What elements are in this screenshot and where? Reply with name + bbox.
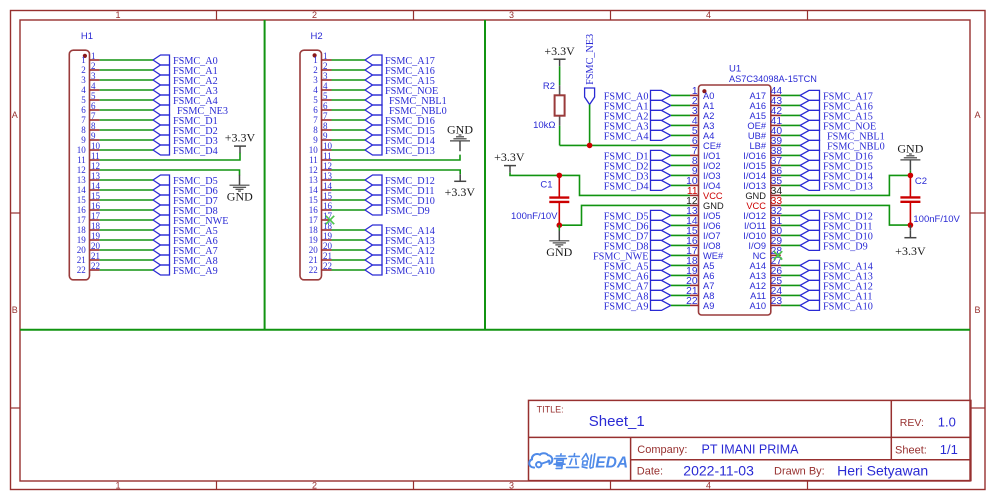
svg-text:14: 14 xyxy=(91,181,101,191)
U1 pin 38 (I/O16) xyxy=(743,146,782,161)
net label FSMC_A17 (U1 pin 44) xyxy=(800,90,873,102)
wire H1 pin 18 xyxy=(100,229,153,231)
svg-text:4: 4 xyxy=(706,481,711,491)
wire H2 pin 21 xyxy=(332,259,366,261)
net label FSMC_A4 (U1 pin 5) xyxy=(604,130,671,142)
H1 pin 5 xyxy=(81,91,99,105)
svg-text:20: 20 xyxy=(91,241,101,251)
svg-text:FSMC_A9: FSMC_A9 xyxy=(173,266,218,277)
svg-text:17: 17 xyxy=(77,215,87,225)
svg-text:A1: A1 xyxy=(703,101,714,111)
svg-text:1: 1 xyxy=(313,55,318,65)
wire H1 pin 5 xyxy=(100,99,153,101)
svg-text:4: 4 xyxy=(313,85,318,95)
net label FSMC_NWE (U1 pin 17) xyxy=(593,250,671,262)
svg-text:22: 22 xyxy=(91,261,100,271)
net label FSMC_D7 (U1 pin 15) xyxy=(604,230,671,242)
H1 pin 22 xyxy=(77,261,100,275)
svg-text:GND: GND xyxy=(227,190,253,204)
net label FSMC_D3 (H1 pin 9) xyxy=(153,135,218,147)
net label FSMC_NWE (H1 pin 17) xyxy=(153,215,228,227)
wire U1 pin 14 xyxy=(671,224,690,226)
svg-text:VCC: VCC xyxy=(703,191,723,201)
svg-text:13: 13 xyxy=(309,175,319,185)
svg-text:14: 14 xyxy=(309,185,319,195)
H2 pin 15 xyxy=(309,191,333,205)
svg-text:+3.3V: +3.3V xyxy=(895,244,926,258)
svg-text:FSMC_NE3: FSMC_NE3 xyxy=(585,34,596,85)
wire U1 pin 4 xyxy=(671,124,690,126)
svg-text:2: 2 xyxy=(312,10,317,20)
svg-text:A12: A12 xyxy=(749,281,766,291)
wire U1 pin 25 xyxy=(781,284,800,286)
svg-text:VCC: VCC xyxy=(746,201,766,211)
U1 pin 33 (VCC) xyxy=(746,196,782,211)
svg-text:12: 12 xyxy=(77,165,86,175)
U1 pin 27 (A14) xyxy=(749,256,782,271)
net label FSMC_A12 (H2 pin 20) xyxy=(365,245,435,257)
svg-text:A9: A9 xyxy=(703,301,714,311)
svg-text:A6: A6 xyxy=(703,271,714,281)
title block grid xyxy=(529,400,971,480)
svg-text:10: 10 xyxy=(309,145,319,155)
wire U1 pin 8 xyxy=(671,164,690,166)
H2 pin 20 xyxy=(309,241,333,255)
wire H1 pin 8 xyxy=(100,129,153,131)
svg-text:Heri Setyawan: Heri Setyawan xyxy=(837,462,928,478)
svg-text:2: 2 xyxy=(312,481,317,491)
U1 pin 35 (I/O13) xyxy=(743,176,782,191)
U1 pin 34 (GND) xyxy=(745,186,782,201)
wire U1 pin 36 xyxy=(781,174,800,176)
net label FSMC_A2 (H1 pin 3) xyxy=(153,75,218,87)
wire H1 pin 12 to GND xyxy=(100,170,240,175)
net label FSMC_D3 (U1 pin 9) xyxy=(604,170,671,182)
wire U1 pin 29 xyxy=(781,244,800,246)
H2 pin 21 xyxy=(309,251,332,265)
net label FSMC_A0 (U1 pin 1) xyxy=(604,90,671,102)
svg-text:I/O3: I/O3 xyxy=(703,171,721,181)
svg-text:FSMC_D4: FSMC_D4 xyxy=(173,146,218,157)
wire H1 pin 17 xyxy=(100,219,153,221)
power +3.3V (R2 top) xyxy=(544,44,575,66)
H1 pin 21 xyxy=(77,251,100,265)
svg-text:FSMC_A4: FSMC_A4 xyxy=(604,131,649,142)
U1 pin 30 (I/O10) xyxy=(743,226,782,241)
net label FSMC_A4 (H1 pin 5) xyxy=(153,95,218,107)
U1 pin 2 (A1) xyxy=(690,96,714,111)
svg-text:22: 22 xyxy=(309,265,318,275)
U1 pin 36 (I/O14) xyxy=(743,166,782,181)
H1 pin 20 xyxy=(77,241,101,255)
junction C1 top xyxy=(557,173,563,179)
svg-text:A16: A16 xyxy=(749,101,766,111)
svg-text:A3: A3 xyxy=(703,121,714,131)
U1 body xyxy=(699,85,771,315)
ground GND (H1 pin 12) xyxy=(227,175,253,204)
wire U1 pin 32 xyxy=(781,214,800,216)
U1 pin 26 (A13) xyxy=(749,266,782,281)
power +3.3V (H2 pin 12) xyxy=(445,174,476,199)
wire H1 pin 20 xyxy=(100,249,153,251)
H2 pin 7 xyxy=(313,111,331,125)
net label FSMC_A8 (U1 pin 21) xyxy=(604,290,671,302)
wire U1 pin 1 xyxy=(671,94,690,96)
connector H2 body xyxy=(300,50,322,280)
svg-text:Drawn By:: Drawn By: xyxy=(774,465,825,477)
H2 pin 2 xyxy=(313,61,331,75)
net label FSMC_D14 (H2 pin 9) xyxy=(365,135,435,147)
U1 pin 41 (OE#) xyxy=(747,116,782,131)
wire H2 pin 22 xyxy=(332,269,366,271)
svg-text:9: 9 xyxy=(313,135,318,145)
svg-text:+3.3V: +3.3V xyxy=(494,150,525,164)
wire U1 pin 20 xyxy=(671,284,690,286)
U1 pin 29 (I/O9) xyxy=(748,236,782,251)
svg-text:9: 9 xyxy=(323,131,328,141)
svg-text:9: 9 xyxy=(91,131,96,141)
svg-text:23: 23 xyxy=(771,296,783,307)
svg-text:FSMC_A10: FSMC_A10 xyxy=(385,266,435,277)
wire node to U1 pin 6 xyxy=(560,144,690,146)
net label FSMC_D2 (H1 pin 8) xyxy=(153,125,218,137)
svg-text:A15: A15 xyxy=(749,111,766,121)
wire U1 pin 39 xyxy=(781,144,800,146)
wire U1 pin 37 xyxy=(781,164,800,166)
svg-text:19: 19 xyxy=(309,235,319,245)
wire C2 top to U1 pin 34 xyxy=(781,175,911,195)
wire H2 pin 2 xyxy=(332,69,366,71)
svg-text:21: 21 xyxy=(91,251,100,261)
U1 pin 17 (WE#) xyxy=(686,246,724,261)
net label FSMC_NOE (U1 pin 41) xyxy=(800,120,876,132)
U1 pin 16 (I/O8) xyxy=(686,236,720,251)
net label FSMC_D9 (H2 pin 16) xyxy=(365,205,430,217)
svg-text:22: 22 xyxy=(323,261,332,271)
net label FSMC_D8 (U1 pin 16) xyxy=(604,240,671,252)
svg-text:7: 7 xyxy=(81,115,86,125)
net label FSMC_D7 (H1 pin 15) xyxy=(153,195,218,207)
junction C2 top xyxy=(908,173,914,179)
H2 pin 10 xyxy=(309,141,333,155)
wire U1 pin 10 xyxy=(671,184,690,186)
connector H1 pin-1 dot xyxy=(83,54,87,58)
wire H2 pin 5 xyxy=(332,99,366,101)
wire H1 pin 1 xyxy=(100,59,153,61)
net label FSMC_D12 (U1 pin 32) xyxy=(800,210,873,222)
svg-text:9: 9 xyxy=(81,135,86,145)
svg-text:REV:: REV: xyxy=(900,417,924,429)
U1 pin 22 (A9) xyxy=(686,296,714,311)
wire H1 pin 19 xyxy=(100,239,153,241)
svg-text:3: 3 xyxy=(81,75,86,85)
ground GND (C2 top) xyxy=(897,142,923,176)
svg-text:20: 20 xyxy=(323,241,333,251)
H1 pin 10 xyxy=(77,141,101,155)
svg-text:3: 3 xyxy=(323,71,328,81)
svg-text:15: 15 xyxy=(77,195,87,205)
svg-text:7: 7 xyxy=(313,115,318,125)
wire U1 pin 40 xyxy=(781,134,800,136)
net label FSMC_D4 (U1 pin 10) xyxy=(604,180,671,192)
svg-text:GND: GND xyxy=(447,123,473,137)
svg-text:I/O5: I/O5 xyxy=(703,211,721,221)
wire U1 pin 42 xyxy=(781,114,800,116)
H1 pin 13 xyxy=(77,171,101,185)
svg-text:4: 4 xyxy=(323,81,328,91)
junction C1 bottom xyxy=(557,222,563,228)
H1 pin 17 xyxy=(77,211,101,225)
net label FSMC_D1 (H1 pin 7) xyxy=(153,115,218,127)
junction R2/NE3/CE# xyxy=(587,143,593,149)
svg-text:8: 8 xyxy=(91,121,96,131)
svg-text:4: 4 xyxy=(91,81,96,91)
svg-text:A17: A17 xyxy=(749,91,766,101)
svg-text:2: 2 xyxy=(313,65,318,75)
svg-text:19: 19 xyxy=(77,235,87,245)
svg-text:16: 16 xyxy=(309,205,319,215)
svg-text:15: 15 xyxy=(323,191,333,201)
wire U1 pin 15 xyxy=(671,234,690,236)
svg-text:FSMC_D4: FSMC_D4 xyxy=(604,181,649,192)
wire vertical separator x=485 xyxy=(484,20,486,330)
net label FSMC_NE3 (vertical) xyxy=(585,34,596,105)
U1 pin 7 (I/O1) xyxy=(690,146,721,161)
svg-text:5: 5 xyxy=(81,95,86,105)
U1 pin 39 (LB#) xyxy=(749,136,782,151)
net label FSMC_A13 (H2 pin 19) xyxy=(365,235,435,247)
wire U1 pin 18 xyxy=(671,264,690,266)
svg-text:UB#: UB# xyxy=(748,131,767,141)
net label FSMC_D5 (U1 pin 13) xyxy=(604,210,671,222)
net label FSMC_D5 (H1 pin 13) xyxy=(153,175,218,187)
svg-text:I/O1: I/O1 xyxy=(703,151,721,161)
net label FSMC_A5 (U1 pin 18) xyxy=(604,260,671,272)
H1 pin 7 xyxy=(81,111,99,125)
wire H1 pin 14 xyxy=(100,189,153,191)
U1 pin 15 (I/O7) xyxy=(686,226,720,241)
svg-text:I/O14: I/O14 xyxy=(743,171,766,181)
svg-text:18: 18 xyxy=(77,225,87,235)
U1 pin 23 (A10) xyxy=(749,296,782,311)
H1 pin 11 xyxy=(77,151,100,165)
net label FSMC_A15 (U1 pin 42) xyxy=(800,110,873,122)
net label FSMC_D6 (U1 pin 14) xyxy=(604,220,671,232)
U1 pin 9 (I/O3) xyxy=(690,166,721,181)
net label FSMC_A14 (U1 pin 27) xyxy=(800,260,873,272)
svg-text:6: 6 xyxy=(81,105,86,115)
svg-text:Company:: Company: xyxy=(637,444,687,456)
wire H2 pin 13 xyxy=(332,179,366,181)
svg-text:1: 1 xyxy=(91,51,96,61)
svg-text:A11: A11 xyxy=(750,291,766,301)
svg-text:11: 11 xyxy=(77,155,86,165)
H2 pin 16 xyxy=(309,201,333,215)
H2 pin 5 xyxy=(313,91,331,105)
net label FSMC_A12 (U1 pin 25) xyxy=(800,280,873,292)
svg-text:4: 4 xyxy=(81,85,86,95)
net label FSMC_A6 (H1 pin 19) xyxy=(153,235,218,247)
svg-text:1: 1 xyxy=(81,55,86,65)
wire R2 to node xyxy=(559,126,561,146)
svg-text:15: 15 xyxy=(309,195,319,205)
junction C2 bottom xyxy=(908,222,914,228)
svg-text:8: 8 xyxy=(313,125,318,135)
svg-text:5: 5 xyxy=(91,91,96,101)
H1 pin 9 xyxy=(81,131,99,145)
power +3.3V (C2 bottom) xyxy=(895,225,926,258)
svg-text:4: 4 xyxy=(706,10,711,20)
U1 pin 28 (NC) xyxy=(753,246,783,261)
svg-text:OE#: OE# xyxy=(747,121,766,131)
net label FSMC_A16 (H2 pin 2) xyxy=(365,65,435,77)
connector H1 body xyxy=(69,50,89,280)
svg-text:12: 12 xyxy=(91,161,100,171)
net label FSMC_A9 (U1 pin 22) xyxy=(604,300,671,312)
net label FSMC_A10 (H2 pin 22) xyxy=(365,265,435,277)
net label FSMC_NBL0 (H2 pin 6) xyxy=(365,105,447,117)
svg-text:AS7C34098A-15TCN: AS7C34098A-15TCN xyxy=(729,74,817,84)
wire H2 pin 11 to GND xyxy=(332,155,461,160)
wire H1 pin 15 xyxy=(100,199,153,201)
svg-text:+3.3V: +3.3V xyxy=(225,131,256,145)
svg-text:Sheet_1: Sheet_1 xyxy=(589,413,645,430)
wire U1 pin 41 xyxy=(781,124,800,126)
wire H1 pin 13 xyxy=(100,179,153,181)
wire H1 pin 9 xyxy=(100,139,153,141)
svg-text:18: 18 xyxy=(91,221,101,231)
svg-text:11: 11 xyxy=(323,151,332,161)
svg-text:A0: A0 xyxy=(703,91,714,101)
svg-text:A: A xyxy=(12,110,18,120)
svg-text:R2: R2 xyxy=(543,81,555,92)
U1 pin 32 (I/O12) xyxy=(743,206,782,221)
svg-text:5: 5 xyxy=(313,95,318,105)
svg-text:NC: NC xyxy=(753,251,767,261)
svg-text:+3.3V: +3.3V xyxy=(445,185,476,199)
svg-text:I/O9: I/O9 xyxy=(748,241,766,251)
net label FSMC_D6 (H1 pin 14) xyxy=(153,185,218,197)
H2 pin 9 xyxy=(313,131,331,145)
net label FSMC_A16 (U1 pin 43) xyxy=(800,100,873,112)
svg-text:H1: H1 xyxy=(81,31,93,42)
H1 pin 1 xyxy=(81,51,99,65)
U1 pin 4 (A3) xyxy=(690,116,714,131)
net label FSMC_D10 (H2 pin 15) xyxy=(365,195,435,207)
wire +3.3V to R2 xyxy=(559,66,561,85)
svg-text:6: 6 xyxy=(313,105,318,115)
svg-text:I/O16: I/O16 xyxy=(743,151,766,161)
net label FSMC_D1 (U1 pin 7) xyxy=(604,150,671,162)
svg-text:WE#: WE# xyxy=(703,251,724,261)
net label FSMC_D10 (U1 pin 30) xyxy=(800,230,873,242)
U1 pin 8 (I/O2) xyxy=(690,156,721,171)
svg-text:FSMC_D9: FSMC_D9 xyxy=(823,241,868,252)
svg-text:5: 5 xyxy=(323,91,328,101)
svg-text:Date:: Date: xyxy=(637,465,663,477)
svg-text:17: 17 xyxy=(309,215,319,225)
wire U1 pin 30 xyxy=(781,234,800,236)
svg-text:16: 16 xyxy=(91,201,101,211)
H2 pin 14 xyxy=(309,181,333,195)
svg-text:I/O11: I/O11 xyxy=(744,221,766,231)
wire H2 pin 8 xyxy=(332,129,366,131)
U1 pin 5 (A4) xyxy=(690,126,714,141)
svg-text:13: 13 xyxy=(77,175,87,185)
wire H1 pin 22 xyxy=(100,269,153,271)
wire U1 pin 19 xyxy=(671,274,690,276)
wire U1 pin 23 xyxy=(781,304,800,306)
wire H2 pin 15 xyxy=(332,199,366,201)
svg-text:21: 21 xyxy=(309,255,318,265)
svg-text:10: 10 xyxy=(323,141,333,151)
H1 pin 19 xyxy=(77,231,101,245)
svg-text:EDA: EDA xyxy=(595,455,628,472)
svg-text:8: 8 xyxy=(81,125,86,135)
wire H2 pin 16 xyxy=(332,209,366,211)
wire vertical separator x=265 xyxy=(264,20,266,330)
svg-text:11: 11 xyxy=(309,155,318,165)
wire H2 pin 7 xyxy=(332,119,366,121)
svg-text:1.0: 1.0 xyxy=(938,414,956,429)
H2 pin 13 xyxy=(309,171,333,185)
svg-text:Sheet:: Sheet: xyxy=(895,445,927,457)
svg-text:2: 2 xyxy=(91,61,96,71)
svg-text:16: 16 xyxy=(77,205,87,215)
U1 pin 14 (I/O6) xyxy=(686,216,720,231)
svg-text:A8: A8 xyxy=(703,291,714,301)
capacitor C2 xyxy=(900,175,920,225)
svg-text:C1: C1 xyxy=(540,180,552,191)
wire U1 pin 2 xyxy=(671,104,690,106)
net label FSMC_D14 (U1 pin 36) xyxy=(800,170,873,182)
net label FSMC_D11 (H2 pin 14) xyxy=(365,185,434,197)
ground GND (H2 pin 11) xyxy=(447,123,473,152)
H2 pin 18 xyxy=(309,221,333,235)
capacitor C1 xyxy=(549,175,569,225)
net label FSMC_A9 (H1 pin 22) xyxy=(153,265,218,277)
H1 pin 3 xyxy=(81,71,99,85)
svg-text:B: B xyxy=(974,305,980,315)
svg-text:C2: C2 xyxy=(915,176,927,187)
U1 pin 20 (A7) xyxy=(686,276,714,291)
net label FSMC_D13 (H2 pin 10) xyxy=(365,145,435,157)
wire H2 pin 20 xyxy=(332,249,366,251)
U1 pin 44 (A17) xyxy=(749,86,782,101)
svg-text:GND: GND xyxy=(745,191,766,201)
svg-text:20: 20 xyxy=(309,245,319,255)
H1 pin 12 xyxy=(77,161,100,175)
net label FSMC_NBL1 (H2 pin 5) xyxy=(365,95,447,107)
connector H2 pin-1 dot xyxy=(313,53,317,57)
H1 pin 15 xyxy=(77,191,101,205)
H2 pin 6 xyxy=(313,101,331,115)
wire U1 pin 26 xyxy=(781,274,800,276)
svg-text:8: 8 xyxy=(323,121,328,131)
U1 pin 1 (A0) xyxy=(690,86,714,101)
U1 pin 12 (GND) xyxy=(686,196,724,211)
H1 pin 14 xyxy=(77,181,101,195)
svg-text:2022-11-03: 2022-11-03 xyxy=(683,462,754,478)
net label FSMC_D16 (H2 pin 7) xyxy=(365,115,435,127)
U1 pin 19 (A6) xyxy=(686,266,714,281)
net label FSMC_A1 (U1 pin 2) xyxy=(604,100,671,112)
U1 pin 31 (I/O11) xyxy=(744,216,782,231)
net label FSMC_D8 (H1 pin 16) xyxy=(153,205,218,217)
net label FSMC_A10 (U1 pin 23) xyxy=(800,300,873,312)
wire H1 pin 16 xyxy=(100,209,153,211)
U1 pin 40 (UB#) xyxy=(748,126,782,141)
